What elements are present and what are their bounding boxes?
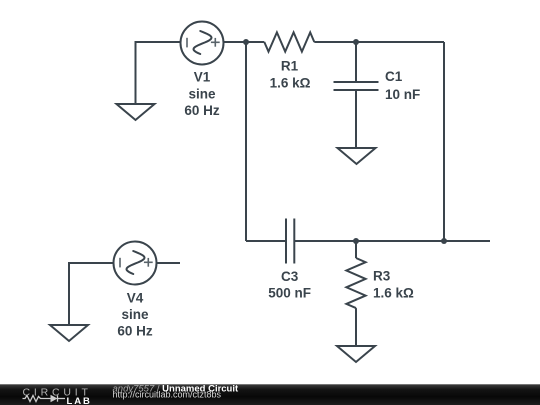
svg-text:V1: V1 — [194, 70, 211, 85]
svg-text:1.6 kΩ: 1.6 kΩ — [373, 285, 414, 300]
wire C3 to node C — [294, 240, 356, 242]
voltage source V1 — [181, 22, 224, 65]
capacitor C1 — [334, 42, 379, 148]
svg-text:sine: sine — [188, 86, 216, 101]
ground GND3 (R3) — [337, 346, 375, 362]
svg-text:10 nF: 10 nF — [385, 87, 420, 102]
wire R1 to node B — [314, 41, 444, 43]
wire right stub — [444, 240, 490, 242]
node D junction dot — [441, 238, 447, 244]
footer bar — [0, 384, 540, 405]
wire V1 left lead — [136, 42, 181, 104]
node B junction dot — [353, 39, 359, 45]
wire R3 to ground — [355, 308, 357, 346]
svg-text:http://circuitlab.com/ctzt8bs: http://circuitlab.com/ctzt8bs — [113, 390, 222, 400]
svg-text:LAB: LAB — [67, 396, 92, 405]
capacitor C3 — [286, 219, 294, 264]
svg-text:500 nF: 500 nF — [268, 286, 311, 301]
wire V4 right stub — [157, 262, 181, 264]
svg-text:C3: C3 — [281, 269, 299, 284]
wire bottom rail left — [246, 240, 286, 242]
svg-text:C1: C1 — [385, 69, 403, 84]
ground GND2 (C1) — [338, 148, 376, 164]
resistor R3 — [346, 258, 365, 308]
voltage source V4 — [114, 242, 157, 285]
svg-text:60 Hz: 60 Hz — [117, 324, 153, 339]
svg-text:R1: R1 — [281, 59, 299, 74]
wire node A down — [245, 42, 247, 241]
svg-text:V4: V4 — [127, 291, 144, 306]
wire V1 to node A — [224, 41, 265, 43]
wire node C down — [355, 241, 357, 258]
wire node C to node D — [356, 240, 444, 242]
ground GND1 (V1) — [117, 104, 155, 120]
svg-text:sine: sine — [121, 307, 149, 322]
svg-text:R3: R3 — [373, 269, 391, 284]
wire V4 left lead — [69, 263, 114, 325]
svg-text:1.6 kΩ: 1.6 kΩ — [270, 75, 311, 90]
node C junction dot — [353, 238, 359, 244]
wire right branch down — [443, 42, 445, 241]
logo wire motif — [23, 395, 66, 401]
svg-text:60 Hz: 60 Hz — [184, 103, 220, 118]
ground GND4 (V4) — [50, 325, 88, 341]
node A junction dot — [243, 39, 249, 45]
logo diode triangle — [51, 395, 58, 402]
resistor R1 — [264, 32, 314, 51]
